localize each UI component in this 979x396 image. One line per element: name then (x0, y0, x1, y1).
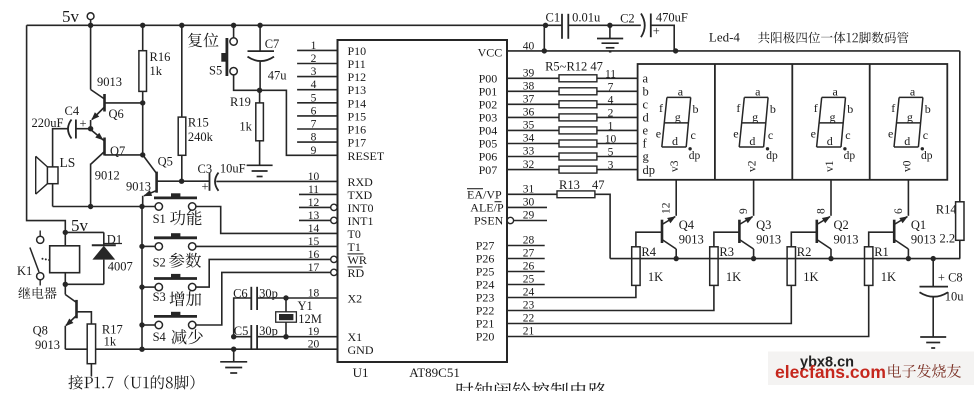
svg-text:7: 7 (608, 81, 614, 93)
wire pin 24 to base resistor (507, 285, 636, 297)
svg-text:Q6: Q6 (109, 107, 124, 121)
svg-text:9: 9 (311, 145, 317, 157)
pin 2 P11 (297, 63, 337, 65)
svg-text:RD: RD (348, 266, 365, 280)
wire to display pin 11 (597, 77, 638, 79)
svg-text:e: e (656, 127, 661, 141)
svg-text:PSEN: PSEN (474, 214, 504, 228)
svg-text:P20: P20 (476, 330, 495, 344)
svg-text:Led-4: Led-4 (709, 30, 741, 45)
display module box (638, 64, 948, 180)
svg-text:38: 38 (523, 81, 535, 93)
svg-text:S2: S2 (153, 256, 166, 270)
resistor R16 1k (139, 51, 147, 92)
wire S4 to pin17 RD (196, 272, 331, 325)
caption (clipped) (457, 382, 607, 396)
svg-text:P15: P15 (348, 109, 367, 123)
svg-text:12: 12 (661, 202, 673, 214)
svg-text:v2: v2 (747, 160, 759, 172)
wire display common 6 (907, 180, 909, 216)
svg-text:P01: P01 (479, 85, 498, 99)
svg-text:47: 47 (592, 178, 605, 192)
svg-text:b: b (643, 85, 649, 99)
svg-text:dp: dp (921, 150, 933, 162)
pin 1 P10 (297, 49, 337, 51)
svg-text:Q2: Q2 (834, 218, 849, 232)
svg-text:e: e (811, 127, 816, 141)
wire to display pin 4 (597, 103, 638, 105)
svg-text:X2: X2 (348, 292, 363, 306)
pin 12 INT0 (331, 204, 337, 210)
svg-text:12M: 12M (298, 312, 322, 326)
wire R16 bottom to Q6 base node (142, 91, 144, 103)
svg-text:dp: dp (844, 150, 856, 162)
pin 8 P17 (297, 141, 337, 143)
svg-text:a: a (643, 72, 649, 86)
pushbutton S3 increase (171, 274, 180, 279)
svg-text:dp: dp (766, 150, 778, 162)
watermark (768, 352, 974, 386)
svg-text:34: 34 (523, 133, 535, 145)
wire to display pin 10 (597, 143, 638, 145)
wire C2 to VCC line (651, 25, 674, 51)
svg-text:d: d (643, 111, 650, 125)
svg-text:a: a (833, 85, 839, 99)
svg-text:5v: 5v (62, 7, 80, 26)
svg-text:R4: R4 (641, 245, 656, 259)
wire R13 to driver rail (595, 194, 610, 258)
wire pin 22 to base resistor (507, 285, 791, 323)
resistor R2 1K (791, 232, 817, 247)
svg-text:P10: P10 (348, 44, 367, 58)
svg-text:AT89C51: AT89C51 (409, 365, 460, 380)
wire to display pin 5 (597, 156, 638, 158)
svg-text:Q4: Q4 (679, 218, 695, 232)
svg-text:+: + (202, 180, 209, 194)
svg-text:f: f (891, 101, 895, 115)
svg-text:b: b (925, 102, 931, 116)
svg-text:6: 6 (893, 208, 905, 214)
svg-text:47u: 47u (268, 69, 288, 83)
svg-text:P21: P21 (476, 317, 495, 331)
svg-text:P02: P02 (479, 98, 498, 112)
svg-text:a: a (678, 85, 684, 99)
svg-text:c: c (845, 128, 850, 142)
svg-text:R19: R19 (230, 95, 251, 109)
svg-text:P05: P05 (479, 137, 498, 151)
svg-text:30p: 30p (259, 324, 278, 338)
wire base bus Q6-Q7 (142, 103, 144, 155)
wire GND pin20 / bottom rail (65, 348, 337, 350)
svg-text:33: 33 (523, 146, 535, 158)
svg-text:6: 6 (311, 105, 317, 117)
wire S2 to pin15 T1 (196, 245, 338, 247)
wire top 5v rail (27, 24, 563, 26)
svg-text:8: 8 (311, 132, 317, 144)
svg-text:10: 10 (308, 171, 320, 183)
svg-text:10u: 10u (945, 290, 965, 304)
svg-text:R16: R16 (150, 50, 171, 64)
svg-text:P16: P16 (348, 123, 367, 137)
svg-text:P14: P14 (348, 96, 367, 110)
svg-text:P22: P22 (476, 304, 495, 318)
svg-text:1K: 1K (648, 270, 663, 284)
pin 3 P12 (297, 76, 337, 78)
resistor R3 1K (714, 232, 740, 247)
svg-text:1k: 1k (239, 120, 252, 134)
svg-text:1K: 1K (881, 270, 896, 284)
resistor R5 47 (559, 75, 597, 82)
wire display common 9 (753, 180, 755, 216)
wire Q8 base to R17 (77, 312, 92, 324)
svg-text:12: 12 (308, 197, 320, 209)
resistor R10 47 (559, 140, 597, 147)
svg-text:9013: 9013 (756, 233, 781, 247)
wire display common 8 (830, 180, 832, 216)
wire R15 top (181, 25, 183, 117)
svg-text:39: 39 (523, 68, 535, 80)
svg-text:R2: R2 (797, 245, 812, 259)
wire display common 12 (675, 180, 677, 216)
svg-text:1k: 1k (104, 334, 117, 348)
svg-text:10: 10 (605, 134, 617, 146)
svg-text:3: 3 (608, 160, 614, 172)
svg-text:1: 1 (311, 40, 317, 52)
svg-text:K1: K1 (17, 264, 32, 278)
ground bottom right (920, 336, 946, 338)
svg-text:P11: P11 (348, 57, 366, 71)
svg-text:ALE/P: ALE/P (470, 201, 504, 215)
svg-text:d: d (904, 134, 910, 148)
pin 6 P15 (297, 115, 337, 117)
svg-text:9013: 9013 (126, 180, 151, 194)
svg-text:P07: P07 (479, 163, 498, 177)
svg-text:b: b (693, 102, 699, 116)
ground top center (609, 25, 611, 38)
resistor R12 47 (559, 166, 597, 173)
svg-text:v3: v3 (669, 160, 681, 172)
pin 4 P13 (297, 89, 337, 91)
svg-text:P17: P17 (348, 136, 367, 150)
pin 7 P16 (297, 128, 337, 130)
svg-text:d: d (827, 134, 833, 148)
svg-text:8: 8 (816, 208, 828, 214)
svg-text:dp: dp (689, 150, 701, 162)
pushbutton S2 set (171, 233, 180, 238)
svg-text:2: 2 (608, 107, 614, 119)
svg-text:v0: v0 (901, 160, 913, 172)
svg-text:13: 13 (308, 210, 320, 222)
resistor R8 47 (559, 114, 597, 121)
svg-text:Q3: Q3 (756, 218, 771, 232)
op-amp U1 AT89C51 microcontroller body (338, 40, 508, 362)
pin 32 P07 + resistor segment wire (507, 169, 559, 171)
wire left edge from rail to relay 5v (27, 25, 66, 246)
ground symbol bottom center (233, 349, 235, 362)
svg-text:g: g (675, 110, 681, 124)
svg-text:C2: C2 (620, 12, 635, 26)
svg-text:2.2: 2.2 (940, 232, 956, 246)
wire to display pin 2 (597, 116, 638, 118)
pin 16 WR (331, 256, 337, 262)
svg-text:c: c (691, 128, 696, 142)
pushbutton S5 reset (188, 33, 219, 48)
svg-text:R1: R1 (874, 245, 889, 259)
svg-text:5: 5 (608, 147, 614, 159)
pin 17 RD (331, 269, 337, 275)
svg-text:+: + (80, 117, 87, 131)
svg-text:EA/VP: EA/VP (467, 188, 502, 202)
wire button column (141, 207, 143, 350)
svg-text:R5~R12 47: R5~R12 47 (545, 60, 603, 74)
svg-text:T0: T0 (348, 227, 361, 241)
svg-text:+: + (653, 24, 660, 38)
svg-text:RXD: RXD (348, 175, 374, 189)
resistor R11 47 (559, 153, 597, 160)
svg-text:INT0: INT0 (348, 201, 374, 215)
svg-text:b: b (770, 102, 776, 116)
svg-text:dp: dp (643, 163, 656, 177)
svg-text:P24: P24 (476, 278, 495, 292)
svg-text:32: 32 (523, 159, 535, 171)
pin 13 INT1 (331, 217, 337, 223)
svg-text:RESET: RESET (348, 149, 385, 163)
svg-text:P23: P23 (476, 291, 495, 305)
svg-text:Q8: Q8 (33, 324, 48, 338)
svg-text:240k: 240k (188, 130, 214, 144)
resistor R15 240k (178, 117, 186, 155)
svg-text:R3: R3 (719, 245, 734, 259)
svg-text:S3: S3 (153, 290, 166, 304)
svg-text:7: 7 (311, 119, 317, 131)
wire Q5 base to R15/C3 node (157, 180, 182, 182)
wire mid rail (53, 206, 155, 208)
svg-text:S5: S5 (209, 64, 222, 78)
svg-text:0.01u: 0.01u (572, 11, 601, 25)
svg-text:g: g (643, 150, 650, 164)
wire Q7 base (105, 154, 143, 156)
svg-text:LS: LS (60, 155, 76, 170)
svg-text:9: 9 (738, 208, 750, 214)
resistor R4 1K (636, 232, 662, 247)
svg-text:9013: 9013 (97, 75, 122, 89)
wire pin 23 to base resistor (507, 285, 714, 310)
wire C5 to X1 pin19 (257, 336, 337, 338)
wire R16 top (142, 25, 144, 50)
resistor R9 47 (559, 127, 597, 134)
svg-text:C7: C7 (265, 37, 280, 51)
svg-text:INT1: INT1 (348, 214, 374, 228)
svg-text:+ C8: + C8 (938, 271, 963, 285)
svg-text:a: a (755, 85, 761, 99)
pushbutton S1 function (171, 193, 180, 198)
wire to display pin 1 (597, 129, 638, 131)
node rail junctions (88, 23, 93, 28)
svg-text:f: f (814, 101, 818, 115)
pin 36 P03 + resistor segment wire (507, 116, 559, 118)
wire 5v to Q6 collector (90, 25, 92, 89)
wire Q6 base (105, 102, 143, 104)
svg-text:1k: 1k (150, 64, 163, 78)
wire S1 to pin14 T0 (196, 207, 338, 234)
pin 38 P01 + resistor segment wire (507, 90, 559, 92)
svg-text:c: c (768, 128, 773, 142)
svg-text:35: 35 (523, 120, 535, 132)
svg-text:4: 4 (311, 79, 317, 91)
svg-text:11: 11 (308, 184, 319, 196)
pushbutton S4 decrease (171, 312, 180, 317)
svg-text:P13: P13 (348, 83, 367, 97)
svg-text:T1: T1 (348, 240, 361, 254)
svg-text:d: d (749, 134, 755, 148)
svg-text:C4: C4 (65, 104, 80, 118)
wire C6 to X2 pin18 (257, 297, 337, 299)
wire C3 to pin10 RXD (216, 180, 337, 182)
resistor R17 1k (87, 324, 95, 364)
pin 37 P02 + resistor segment wire (507, 103, 559, 105)
svg-text:P12: P12 (348, 70, 367, 84)
svg-text:9013: 9013 (35, 338, 60, 352)
svg-text:9013: 9013 (834, 233, 859, 247)
svg-text:5: 5 (311, 92, 317, 104)
svg-text:P04: P04 (479, 124, 498, 138)
svg-text:R14: R14 (936, 203, 958, 217)
pin 33 P06 + resistor segment wire (507, 156, 559, 158)
svg-text:v1: v1 (824, 160, 836, 172)
svg-text:1K: 1K (803, 270, 818, 284)
wire C4 to speaker (53, 129, 68, 167)
wire C1 to ground node (568, 24, 641, 26)
svg-text:9012: 9012 (95, 169, 120, 183)
svg-text:c: c (643, 98, 649, 112)
resistor R7 47 (559, 101, 597, 108)
resistor R6 47 (559, 88, 597, 95)
svg-text:d: d (672, 134, 678, 148)
wire R17 to P1.7 note (90, 364, 92, 377)
svg-text:9013: 9013 (679, 233, 704, 247)
svg-text:a: a (910, 85, 916, 99)
pin 5 P14 (297, 102, 337, 104)
svg-text:f: f (736, 101, 740, 115)
wire VCC to top rail (543, 25, 545, 51)
pin 34 P05 + resistor segment wire (507, 143, 559, 145)
svg-text:4007: 4007 (108, 260, 133, 274)
svg-text:GND: GND (348, 343, 374, 357)
svg-text:e: e (733, 127, 738, 141)
svg-text:9013: 9013 (911, 233, 936, 247)
svg-text:g: g (752, 110, 758, 124)
svg-text:P03: P03 (479, 111, 498, 125)
svg-text:S1: S1 (153, 212, 166, 226)
svg-text:P27: P27 (476, 239, 495, 253)
svg-text:S4: S4 (153, 330, 167, 344)
wire to display pin 3 (597, 169, 638, 171)
svg-text:g: g (830, 110, 836, 124)
svg-text:WR: WR (348, 253, 367, 267)
wire to display pin 7 (597, 90, 638, 92)
label common anode 4-digit display (758, 32, 909, 44)
relay K1 coil box (50, 246, 80, 273)
svg-text:Q1: Q1 (911, 218, 926, 232)
svg-text:C1: C1 (546, 11, 561, 25)
svg-text:37: 37 (523, 94, 535, 106)
pin 11 TXD (299, 193, 338, 195)
svg-text:36: 36 (523, 107, 535, 119)
svg-text:b: b (847, 102, 853, 116)
wire C6 left to ground column (234, 298, 252, 337)
svg-text:P25: P25 (476, 265, 495, 279)
svg-text:X1: X1 (348, 330, 363, 344)
svg-text:P26: P26 (476, 252, 495, 266)
svg-text:P06: P06 (479, 150, 498, 164)
svg-text:e: e (888, 127, 893, 141)
wire relay bottom / diode to Q8 (65, 283, 104, 285)
wire S5 to node (234, 75, 260, 90)
svg-text:U1: U1 (353, 365, 369, 380)
svg-text:TXD: TXD (348, 188, 373, 202)
wire driver emitter rail (610, 258, 960, 260)
svg-text:3: 3 (311, 66, 317, 78)
svg-text:4: 4 (608, 94, 614, 106)
svg-text:11: 11 (605, 68, 616, 80)
svg-text:470uF: 470uF (656, 11, 688, 25)
svg-text:1K: 1K (726, 270, 741, 284)
resistor R1 1K (869, 232, 895, 247)
pin 35 P04 + resistor segment wire (507, 129, 559, 131)
svg-text:Q7: Q7 (110, 144, 125, 158)
svg-text:2: 2 (311, 53, 317, 65)
label connect P1.7 (68, 375, 194, 390)
svg-text:e: e (643, 124, 649, 138)
svg-text:Q5: Q5 (158, 155, 173, 169)
svg-text:10uF: 10uF (220, 162, 246, 176)
ground below R19 (247, 164, 273, 166)
svg-text:elecfans.com: elecfans.com (775, 362, 886, 382)
pin 39 P00 + resistor segment wire (507, 77, 559, 79)
wire pin 21 to base resistor (507, 285, 869, 336)
svg-text:P00: P00 (479, 72, 498, 86)
svg-text:VCC: VCC (478, 46, 503, 60)
svg-text:f: f (659, 101, 663, 115)
svg-text:c: c (923, 128, 928, 142)
svg-text:g: g (907, 110, 913, 124)
wire speaker to mid rail (52, 184, 54, 207)
wire S3 to pin16 WR (196, 259, 331, 287)
svg-text:R15: R15 (188, 116, 209, 130)
wire node to pin9 RESET (260, 90, 338, 155)
svg-text:R13: R13 (559, 178, 580, 192)
svg-text:1: 1 (608, 120, 614, 132)
